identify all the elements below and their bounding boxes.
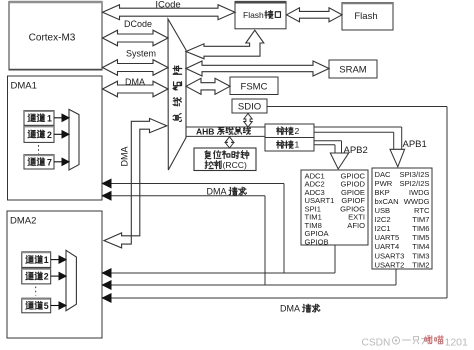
svg-text:SDIO: SDIO: [238, 102, 261, 113]
SRAM bus arrow: [186, 61, 329, 76]
bridge 2 box: [265, 124, 314, 138]
svg-text:I2C1: I2C1: [375, 224, 391, 233]
bus matrix block: [168, 19, 186, 170]
DMA1 controller box: [8, 76, 103, 200]
Flash memory box: [342, 3, 393, 31]
DMA2 channel 1 box: [22, 252, 51, 268]
DMA1 mux trapezoid: [69, 109, 79, 170]
svg-text:DMA2: DMA2: [10, 216, 36, 227]
svg-text:2: 2: [295, 126, 300, 136]
svg-text:DMA: DMA: [125, 77, 145, 87]
svg-text:RTC: RTC: [414, 206, 430, 215]
SDIO horizontal line: [268, 106, 448, 108]
svg-text:USART2: USART2: [375, 260, 405, 269]
reset and clock control RCC box: [194, 148, 256, 171]
DMA2 channel arrows: [51, 259, 60, 261]
svg-text:FSMC: FSMC: [241, 82, 268, 93]
wire bridge1 to APB2 funnel: [314, 140, 342, 142]
DMA1 channel arrows: [54, 117, 63, 119]
svg-text:DMA: DMA: [280, 303, 300, 313]
svg-text:Cortex-M3: Cortex-M3: [29, 33, 76, 44]
svg-text:APB2: APB2: [344, 145, 368, 156]
DMA2 channel dots: [35, 287, 37, 296]
System bus arrow: [103, 60, 169, 76]
Flash interface box: [235, 2, 286, 29]
svg-text:1: 1: [47, 114, 52, 124]
svg-text:AFIO: AFIO: [347, 221, 365, 230]
DMA2 channel 2 box: [22, 268, 51, 284]
svg-text:TIM3: TIM3: [412, 251, 429, 260]
FSMC bus arrow: [186, 78, 230, 94]
DMA1 channel 7 box: [24, 155, 54, 169]
svg-text:Flash: Flash: [243, 10, 264, 20]
svg-text:BKP: BKP: [375, 188, 390, 197]
svg-text:7: 7: [47, 157, 52, 167]
APB2 funnel arrowhead: [330, 153, 348, 169]
svg-text:(RCC): (RCC): [223, 160, 247, 170]
svg-text:2: 2: [44, 272, 49, 282]
Flash interface to Flash arrow: [287, 8, 343, 22]
DMA1 channel 2 box: [24, 126, 54, 142]
svg-text:SRAM: SRAM: [339, 65, 367, 76]
wire down from DMA1 request to DMA2 request line: [283, 184, 285, 274]
SRAM box: [329, 60, 377, 78]
DMA2 request line from SDIO: [103, 297, 448, 299]
SDIO to AHB arrow: [244, 114, 252, 128]
svg-text:DAC: DAC: [375, 170, 392, 179]
APB1 funnel arrowhead: [390, 149, 405, 167]
svg-text:WWDG: WWDG: [404, 197, 430, 206]
vertical DMA bus arrow: [104, 118, 167, 248]
FSMC box: [230, 77, 278, 95]
DMA1 channel 1 box: [24, 111, 54, 126]
DMA1 request line from APB1: [103, 195, 266, 197]
bent arrow bus matrix to Flash interface: [186, 30, 264, 59]
svg-text:2: 2: [47, 130, 52, 140]
wire APB1 box bottom to request line: [395, 269, 397, 285]
svg-text:USB: USB: [375, 206, 391, 215]
DMA2 request line from APB2: [103, 272, 336, 274]
svg-text:ICode: ICode: [155, 0, 180, 11]
svg-text:TIM6: TIM6: [412, 224, 429, 233]
ICode bus arrow: [103, 5, 236, 20]
svg-text:TIM7: TIM7: [412, 215, 429, 224]
DCode bus arrow: [103, 30, 169, 46]
svg-text:TIM5: TIM5: [412, 233, 429, 242]
svg-text:1: 1: [44, 255, 49, 265]
wire APB2 box bottom to request line: [334, 246, 336, 274]
CPU block Cortex-M3: [9, 2, 102, 71]
svg-text:5: 5: [44, 301, 49, 311]
svg-text:SPI2/I2S: SPI2/I2S: [400, 179, 430, 188]
DMA1 channel dots: [38, 145, 40, 154]
wire down to APB1 request line: [264, 196, 266, 285]
svg-text:APB1: APB1: [403, 139, 427, 150]
svg-text:UART5: UART5: [375, 233, 400, 242]
DMA bus arrow from DMA1: [103, 81, 169, 97]
svg-text:I2C2: I2C2: [375, 215, 391, 224]
svg-text:TIM4: TIM4: [412, 242, 429, 251]
svg-text:DMA1: DMA1: [11, 81, 37, 92]
svg-text:DMA: DMA: [120, 147, 130, 167]
wire up to SDIO line: [446, 107, 448, 299]
bridge 1 box: [265, 138, 314, 152]
svg-text:AHB: AHB: [196, 126, 214, 136]
svg-text:IWDG: IWDG: [409, 188, 430, 197]
svg-text:DMA: DMA: [207, 186, 227, 196]
svg-text:USART3: USART3: [375, 251, 405, 260]
svg-text:GPIOB: GPIOB: [305, 237, 329, 246]
wire bridge2 to APB1 funnel: [314, 126, 402, 128]
SDIO box: [232, 99, 267, 113]
svg-text:1: 1: [295, 140, 300, 150]
DMA2 controller box: [7, 211, 102, 338]
bus matrix vertical label 总线矩阵: [173, 113, 181, 121]
svg-text:System: System: [126, 49, 156, 59]
AHB to RCC arrow: [225, 137, 234, 148]
svg-text:DCode: DCode: [124, 19, 152, 29]
svg-text:SPI3/I2S: SPI3/I2S: [400, 170, 430, 179]
APB2 peripherals box: [301, 170, 368, 245]
svg-text:CSDN: CSDN: [362, 337, 391, 348]
DMA2 channel 5 box: [22, 298, 51, 313]
svg-text:UART4: UART4: [375, 242, 400, 251]
DMA2 request line from APB1: [103, 284, 397, 286]
svg-text:1: 1: [427, 336, 432, 347]
svg-text:TIM2: TIM2: [412, 260, 429, 269]
DMA2 mux trapezoid: [66, 250, 76, 310]
svg-text:PWR: PWR: [375, 179, 393, 188]
AHB system bus lines: [186, 126, 265, 128]
APB1 peripherals box: [372, 168, 432, 269]
svg-text:1201: 1201: [445, 336, 469, 348]
DMA1 request line from APB2: [103, 183, 285, 185]
svg-text:bxCAN: bxCAN: [375, 197, 399, 206]
svg-text:Flash: Flash: [354, 11, 377, 22]
